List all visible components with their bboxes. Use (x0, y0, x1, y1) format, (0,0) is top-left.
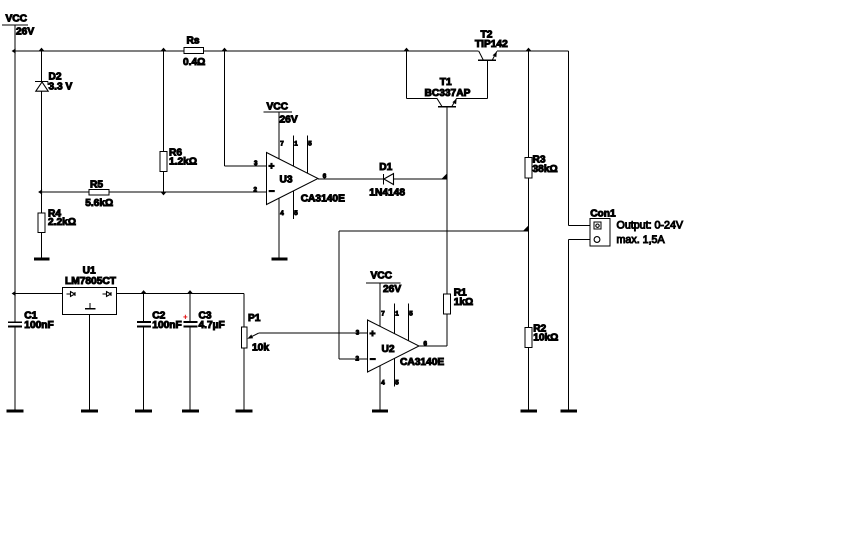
svg-text:LM7805CT: LM7805CT (65, 276, 117, 287)
resistor R3 (525, 155, 558, 178)
svg-text:7: 7 (280, 141, 284, 148)
resistor R1 (444, 288, 474, 314)
wire: T2 base drop (486, 60, 488, 98)
svg-text:3: 3 (254, 160, 258, 167)
svg-text:D1: D1 (379, 162, 392, 173)
ground (R4) (34, 258, 50, 261)
resistor R4 (38, 209, 76, 233)
svg-text:10k: 10k (252, 343, 269, 354)
zener diode D2 3.3V (35, 72, 73, 93)
wire: U2 output horizontal (419, 345, 447, 347)
svg-text:5.6kΩ: 5.6kΩ (85, 198, 113, 209)
resistor R2 (525, 323, 558, 347)
svg-text:U2: U2 (382, 344, 395, 355)
capacitor C2 (137, 294, 182, 410)
wire: R3/R2 rail (528, 51, 530, 327)
junction (U3 pin3 branch) (222, 48, 227, 51)
resistor Rs (183, 35, 205, 68)
wire: Rs downstream sense to U3 pin3 (vertical) (224, 51, 226, 166)
junction (R5 left node) (38, 189, 42, 194)
op-amp U3 CA3140E (254, 101, 346, 257)
svg-text:2: 2 (254, 187, 258, 194)
svg-text:0.4Ω: 0.4Ω (183, 57, 205, 68)
svg-text:38kΩ: 38kΩ (533, 164, 558, 175)
wire: sense to U3 pin3 (horizontal) (225, 165, 267, 167)
svg-text:10kΩ: 10kΩ (533, 332, 558, 343)
svg-text:100nF: 100nF (152, 320, 181, 331)
ground (R2) (521, 410, 538, 413)
wire: P1 top lead (243, 294, 245, 328)
wire: U1 output row to P1 (117, 293, 245, 295)
svg-text:1N4148: 1N4148 (369, 188, 405, 199)
junction (T1 collector branch) (404, 48, 409, 51)
wire: top +26V rail (left part through Rs to T2 collector) (15, 50, 479, 52)
wire: P1 bottom lead (243, 348, 245, 409)
junction (left rail at U1 input) (12, 291, 16, 296)
junction (R3 branch) (526, 48, 531, 51)
wire: U3 output to D1 (318, 178, 384, 180)
capacitor C3 (electrolytic) (183, 294, 225, 410)
wire: R6 branch vertical (163, 51, 165, 192)
svg-text:4: 4 (381, 379, 385, 386)
wire: R4 to ground (41, 233, 43, 258)
svg-text:U1: U1 (83, 265, 96, 276)
svg-text:7: 7 (381, 310, 385, 317)
svg-text:1: 1 (294, 141, 298, 148)
ground (U1) (81, 410, 98, 413)
wire: D2 branch from rail (41, 51, 43, 82)
ground (P1) (236, 410, 253, 413)
wire: wiper diagonal (249, 333, 259, 338)
junction (C2 tap) (141, 290, 146, 293)
svg-text:5: 5 (409, 310, 413, 317)
wire: top rail right (T2 emitter to output corner) (497, 50, 569, 52)
voltage regulator U1 LM7805CT (63, 265, 117, 314)
wire: R5 row to U3 pin2 (42, 191, 267, 193)
svg-text:5: 5 (308, 141, 312, 148)
svg-text:VCC: VCC (267, 101, 289, 112)
ground (U2 pin 4) (372, 410, 388, 413)
svg-text:−: − (370, 354, 376, 365)
ground (C2) (135, 410, 152, 413)
svg-text:−: − (269, 187, 275, 198)
ground (C1) (7, 410, 24, 413)
svg-text:3.3 V: 3.3 V (49, 81, 73, 92)
svg-text:100nF: 100nF (24, 320, 53, 331)
junction (D2 branch) (39, 48, 44, 51)
svg-text:26V: 26V (16, 27, 34, 38)
potentiometer P1 10k (241, 313, 269, 354)
svg-text:max. 1,5A: max. 1,5A (617, 234, 666, 246)
wire: ground rail down (568, 240, 570, 410)
wire: output rail corner down to Con1 pin1 (568, 51, 570, 226)
wire: feedback to U2 pin2 (339, 358, 367, 360)
wire: left VCC rail down (14, 51, 16, 294)
ground (U3 pin 4) (272, 258, 288, 261)
ground (C3) (182, 410, 199, 413)
wire: D2 anode down to R4 (41, 91, 43, 213)
junction (feedback node on divider rail) (523, 226, 528, 231)
wire: T1 base line down through D1 node to R1 (446, 107, 448, 294)
svg-text:CA3140E: CA3140E (400, 357, 444, 368)
ground (Con1 return) (561, 410, 578, 413)
resistor R6 (160, 147, 197, 171)
svg-text:P1: P1 (248, 313, 261, 324)
junction (R6 bottom at R5 wire) (161, 192, 166, 195)
svg-text:1: 1 (395, 310, 399, 317)
svg-text:+: + (370, 329, 376, 340)
svg-text:5: 5 (294, 210, 298, 217)
svg-text:5: 5 (395, 379, 399, 386)
wire: T1 collector horizontal (407, 97, 437, 99)
wire: D1 anode to T1 base node (394, 178, 448, 180)
capacitor C1 (8, 294, 54, 410)
junction (D1 wire at T1 base line) (442, 174, 447, 179)
svg-text:6: 6 (424, 340, 428, 347)
svg-text:Rs: Rs (187, 35, 200, 46)
wiper arrowhead (P1) (247, 334, 253, 338)
wire: Con1 pin2 to ground rail (569, 239, 595, 241)
wire: P1 wiper to U2 pin3 (259, 332, 367, 334)
svg-text:2: 2 (356, 356, 360, 363)
svg-text:VCC: VCC (371, 271, 393, 282)
svg-text:BC337AP: BC337AP (425, 88, 471, 99)
power symbol VCC (top-left) (2, 13, 34, 51)
wire: R1 bottom to U2 output corner (446, 314, 448, 346)
op-amp U2 CA3140E (356, 271, 445, 410)
svg-text:26V: 26V (280, 114, 298, 125)
wire: R2 to ground (528, 348, 530, 410)
transistor T1 BC337AP (425, 77, 471, 107)
svg-text:1.2kΩ: 1.2kΩ (169, 157, 197, 168)
wire: T1 emitter to T2 base (457, 97, 488, 99)
connector Con1 (590, 209, 616, 247)
svg-text:CA3140E: CA3140E (301, 193, 345, 204)
svg-text:4: 4 (280, 210, 284, 217)
svg-text:1kΩ: 1kΩ (454, 297, 474, 308)
svg-text:+: + (269, 161, 275, 172)
svg-text:R5: R5 (90, 179, 103, 190)
wire: feedback divider node to U2 (horizontal) (339, 230, 529, 232)
svg-text:26V: 26V (383, 284, 401, 295)
svg-text:TIP142: TIP142 (475, 39, 508, 50)
svg-text:4.7µF: 4.7µF (199, 320, 225, 331)
svg-text:VCC: VCC (6, 13, 28, 24)
svg-text:2.2kΩ: 2.2kΩ (48, 217, 76, 228)
wire: U1 ground lead (88, 315, 90, 410)
wire: to Con1 pin1 (569, 225, 595, 227)
svg-text:+: + (183, 313, 188, 322)
junction (left rail / top rail) (12, 48, 16, 53)
wire: T1 collector branch vertical (406, 51, 408, 98)
svg-text:Con1: Con1 (590, 209, 616, 220)
svg-text:T1: T1 (440, 77, 452, 88)
wire: U1 input from left rail (15, 293, 63, 295)
junction (C3 tap) (187, 290, 192, 293)
transistor T2 TIP142 (475, 29, 508, 60)
diode D1 1N4148 (369, 162, 405, 199)
junction (R6 branch) (161, 48, 166, 51)
wire: feedback vertical (338, 231, 340, 359)
resistor R5 (85, 179, 113, 209)
svg-text:Output: 0-24V: Output: 0-24V (617, 220, 684, 232)
svg-text:U3: U3 (280, 174, 293, 185)
